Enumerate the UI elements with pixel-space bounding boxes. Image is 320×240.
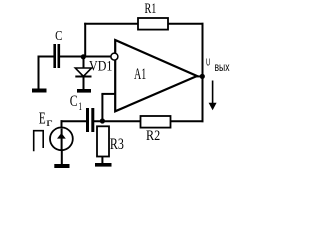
- ground: under VD1: [77, 89, 91, 93]
- source Eg circle: [50, 127, 73, 150]
- diode VD1 cathode bar: [75, 76, 91, 78]
- svg-text:R3: R3: [110, 136, 124, 153]
- svg-text:г: г: [46, 115, 52, 129]
- ground: under generator: [54, 164, 69, 168]
- wire: junction up to op-amp non-inverting input: [101, 94, 103, 122]
- svg-text:R1: R1: [145, 1, 157, 17]
- diode VD1: anode lead: [83, 57, 85, 69]
- wire: op-amp output to node: [196, 75, 203, 77]
- ground: under R3: [95, 163, 112, 167]
- wire: bottom feedback run from output column to R2: [171, 120, 204, 122]
- capacitor C1 plates: [86, 108, 89, 132]
- op-amp A1 triangle: [115, 40, 197, 111]
- output arrow: [212, 81, 214, 105]
- wire: vertical drop at far left to ground: [38, 56, 40, 90]
- wire: R3 to ground: [101, 157, 103, 164]
- wire: R2 to C1/R3 junction: [94, 120, 141, 122]
- wire: R1 branch vertical from summing node up: [84, 23, 86, 57]
- svg-text:U: U: [206, 58, 210, 69]
- node: output junction dot: [200, 74, 205, 79]
- svg-text:C: C: [70, 93, 78, 110]
- resistor R3: [97, 126, 109, 156]
- diode VD1 cathode lead: [83, 77, 85, 90]
- svg-text:1: 1: [78, 99, 82, 113]
- svg-text:вых: вых: [215, 60, 230, 74]
- wire: horizontal to R1 left terminal: [84, 23, 138, 25]
- source Eg arrow shaft: [61, 129, 63, 151]
- source Eg arrowhead: [57, 133, 66, 139]
- svg-text:C: C: [55, 28, 62, 43]
- op-amp inverting input bubble: [111, 53, 118, 60]
- resistor R2: [141, 116, 171, 128]
- wire: output column vertical: [202, 23, 204, 122]
- ground: left ground bar: [32, 89, 47, 93]
- wire: C1 left plate to generator corner: [61, 120, 87, 122]
- wire: generator circle to ground: [61, 150, 63, 165]
- diode VD1 triangle: [75, 68, 91, 76]
- node: summing junction dot: [81, 54, 86, 59]
- wire: capacitor C to summing node: [60, 56, 112, 58]
- svg-text:A1: A1: [134, 66, 146, 83]
- svg-text:R2: R2: [146, 128, 160, 144]
- svg-text:VD1: VD1: [89, 58, 112, 74]
- capacitor C plates: [53, 44, 56, 68]
- generator bracket symbol left of Eg circle: [34, 131, 44, 152]
- wire: corner down to generator circle: [61, 120, 63, 128]
- resistor R1: [138, 18, 168, 30]
- svg-text:E: E: [39, 108, 46, 127]
- node: inverting-return junction dot: [100, 118, 105, 123]
- wire: R1 right terminal to output column: [168, 23, 204, 25]
- wire: input net from left corner to capacitor C left plate: [38, 56, 54, 58]
